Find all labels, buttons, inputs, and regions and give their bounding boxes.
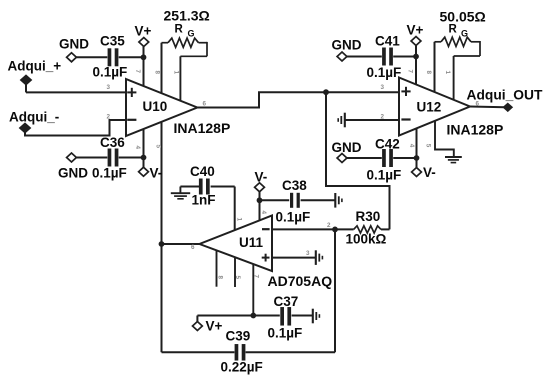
svg-text:1: 1: [236, 218, 243, 222]
svg-text:V-: V-: [423, 165, 436, 180]
svg-text:R30: R30: [356, 209, 381, 224]
svg-text:1nF: 1nF: [192, 193, 216, 208]
svg-text:4: 4: [408, 144, 415, 148]
svg-text:INA128P: INA128P: [447, 122, 504, 138]
svg-text:7: 7: [134, 70, 141, 74]
svg-text:5: 5: [155, 145, 162, 149]
svg-text:5: 5: [425, 144, 432, 148]
svg-text:C40: C40: [190, 164, 215, 179]
svg-text:V-: V-: [255, 170, 268, 185]
svg-text:C36: C36: [100, 135, 125, 150]
svg-text:3: 3: [107, 84, 111, 91]
svg-text:2: 2: [381, 114, 385, 121]
svg-text:C35: C35: [100, 34, 125, 49]
svg-text:0.1µF: 0.1µF: [268, 326, 303, 341]
svg-text:2: 2: [107, 114, 111, 121]
svg-text:4: 4: [260, 211, 267, 215]
svg-text:INA128P: INA128P: [174, 120, 231, 136]
svg-text:R: R: [449, 24, 458, 36]
svg-text:251.3Ω: 251.3Ω: [164, 8, 210, 24]
svg-text:4: 4: [134, 146, 141, 150]
svg-text:6: 6: [191, 244, 195, 251]
svg-text:V-: V-: [150, 166, 163, 181]
svg-text:C37: C37: [274, 294, 299, 309]
svg-text:7: 7: [407, 70, 414, 74]
svg-text:0.1µF: 0.1µF: [367, 168, 402, 183]
svg-text:U12: U12: [417, 100, 442, 115]
svg-text:0.22µF: 0.22µF: [221, 360, 263, 375]
svg-text:U11: U11: [239, 235, 264, 250]
svg-text:8: 8: [217, 276, 224, 280]
svg-text:G: G: [188, 29, 195, 39]
svg-text:6: 6: [203, 101, 207, 108]
svg-text:3: 3: [306, 250, 310, 257]
svg-text:C39: C39: [226, 329, 251, 344]
svg-text:8: 8: [154, 71, 161, 75]
svg-text:0.1µF: 0.1µF: [92, 166, 127, 181]
svg-text:GND: GND: [59, 37, 89, 52]
svg-text:1: 1: [444, 71, 451, 75]
svg-text:Adqui_-: Adqui_-: [9, 110, 59, 125]
svg-text:GND: GND: [58, 166, 88, 181]
svg-text:0.1µF: 0.1µF: [367, 65, 402, 80]
svg-text:7: 7: [252, 275, 259, 279]
svg-text:2: 2: [327, 222, 331, 229]
svg-text:V+: V+: [407, 23, 424, 38]
svg-text:0.1µF: 0.1µF: [276, 210, 311, 225]
svg-text:Adqui_+: Adqui_+: [8, 59, 62, 74]
svg-text:0.1µF: 0.1µF: [93, 65, 128, 80]
svg-text:50.05Ω: 50.05Ω: [440, 9, 486, 25]
svg-text:AD705AQ: AD705AQ: [268, 273, 333, 289]
svg-text:C38: C38: [282, 178, 307, 193]
svg-text:C41: C41: [375, 34, 400, 49]
svg-text:G: G: [461, 29, 468, 39]
svg-text:GND: GND: [332, 140, 362, 155]
svg-text:3: 3: [381, 84, 385, 91]
svg-text:5: 5: [234, 276, 241, 280]
svg-text:1: 1: [173, 71, 180, 75]
svg-text:100kΩ: 100kΩ: [346, 232, 387, 247]
svg-text:8: 8: [425, 71, 432, 75]
svg-text:C42: C42: [375, 137, 400, 152]
svg-text:6: 6: [476, 101, 480, 108]
svg-text:U10: U10: [143, 99, 168, 114]
svg-text:R: R: [175, 24, 184, 36]
svg-text:GND: GND: [332, 38, 362, 53]
svg-text:V+: V+: [135, 24, 152, 39]
svg-text:V+: V+: [206, 319, 223, 334]
